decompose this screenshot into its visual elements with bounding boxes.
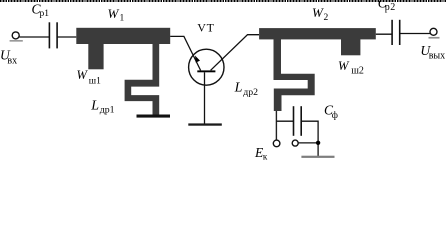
wire Eк minus to junction: [298, 142, 318, 144]
stub Wш2: [341, 39, 360, 55]
terminal Eк plus: [273, 140, 280, 147]
svg-text:вх: вх: [7, 55, 17, 66]
output terminal Uвых: [430, 28, 437, 35]
top dotted border: [0, 0, 446, 2]
wire Eк feed to Cф: [276, 120, 293, 122]
junction dot: [316, 141, 320, 145]
input terminal pad: [10, 40, 23, 42]
emitter arrow of VT: [195, 56, 200, 63]
stub Wш1: [88, 42, 103, 69]
svg-text:р1: р1: [40, 9, 50, 19]
svg-text:ф: ф: [332, 110, 338, 121]
input terminal Uвх: [12, 32, 19, 39]
svg-text:L: L: [234, 80, 243, 95]
svg-text:W: W: [108, 6, 120, 21]
svg-text:L: L: [90, 98, 99, 113]
svg-text:к: к: [263, 151, 268, 161]
svg-text:W: W: [312, 5, 324, 20]
capacitor Cp2: [391, 20, 393, 45]
svg-text:ш2: ш2: [351, 65, 364, 76]
microstrip W1: [76, 28, 170, 44]
ground bar under VT: [188, 123, 222, 125]
svg-text:вых: вых: [429, 51, 445, 62]
capacitor Cp1: [48, 22, 50, 48]
wire W1 to VT emitter: [170, 36, 200, 70]
wire Cp1 to W1: [57, 36, 76, 38]
svg-text:др2: др2: [243, 87, 258, 98]
base lead of VT: [204, 72, 206, 124]
wire input to Cp1: [19, 36, 49, 38]
inductor Lдр1 (printed meander): [125, 43, 160, 116]
inductor Lдр2 (printed meander): [274, 39, 315, 111]
svg-text:ш1: ш1: [89, 77, 101, 87]
svg-text:W: W: [338, 59, 350, 73]
svg-text:2: 2: [324, 13, 329, 23]
ground bar Eк: [301, 156, 334, 158]
svg-text:VT: VT: [197, 20, 214, 34]
wire Cp2 to output terminal: [400, 33, 431, 35]
svg-text:р2: р2: [385, 2, 396, 13]
output terminal pad: [429, 37, 440, 39]
wire Lдр2 to Eк terminal: [275, 111, 277, 140]
svg-text:1: 1: [120, 14, 125, 24]
wire W2 to Cp2: [376, 33, 392, 35]
wire Cф to ground branch: [301, 121, 318, 156]
capacitor Cф: [293, 106, 295, 136]
base bar of VT: [197, 70, 215, 72]
ground bar of Lдр1: [137, 115, 171, 118]
collector wire VT to W2: [211, 35, 260, 71]
transistor VT: [189, 49, 224, 85]
terminal Eк minus: [292, 140, 298, 146]
microstrip W2: [259, 28, 376, 39]
svg-text:W: W: [77, 68, 89, 82]
svg-text:др1: др1: [100, 105, 115, 116]
